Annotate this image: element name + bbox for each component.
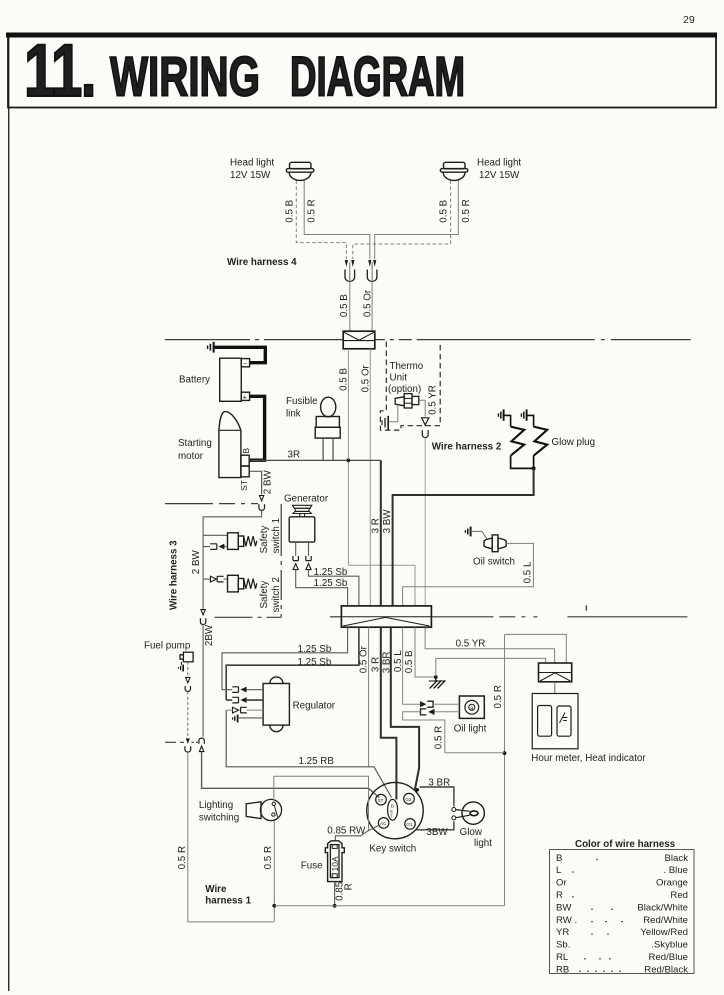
ground node hatch — [429, 677, 446, 688]
connector reg row3 arrow — [233, 707, 239, 713]
color table rows — [556, 853, 688, 976]
svg-text:0.5 B: 0.5 B — [284, 199, 295, 222]
head light left symbol — [286, 162, 314, 180]
fusible link legs — [322, 438, 324, 460]
svg-text:B: B — [391, 804, 394, 809]
svg-text:R: R — [343, 883, 354, 890]
wire 0.5R oil to junction — [445, 752, 505, 754]
boundary line harness3 bottom — [215, 616, 282, 618]
svg-text:0.5 R: 0.5 R — [263, 846, 274, 869]
connector sw1 cup — [210, 544, 217, 550]
svg-text:link: link — [286, 409, 301, 420]
svg-text:ST: ST — [378, 798, 384, 803]
svg-text:Key switch: Key switch — [369, 844, 416, 855]
wire 0.5B jog to connector pin — [348, 565, 415, 606]
wire 3BR to glow light — [420, 787, 454, 807]
key switch terminal ST — [376, 794, 387, 805]
glow plug bottom join — [511, 455, 534, 468]
svg-text:G1: G1 — [406, 822, 413, 827]
svg-text:Starting: Starting — [178, 438, 212, 449]
wire 0.5 Or below C1 — [369, 349, 371, 606]
svg-text:a: a — [470, 706, 474, 712]
wire 1.25RB — [226, 710, 391, 797]
svg-text:BW: BW — [556, 902, 572, 913]
wire glow plug feed to 3BW — [393, 468, 534, 606]
svg-text:Orange: Orange — [656, 878, 688, 889]
wire 0.5B left headlight (dashed) — [296, 181, 346, 260]
hour meter box — [532, 694, 578, 749]
connector thermo cup — [422, 430, 428, 437]
wire 1.25Sb out left 1 — [222, 627, 348, 690]
title text 11. WIRING DIAGRAM — [24, 29, 465, 112]
svg-text:R: R — [556, 890, 563, 901]
boundary dash between fuel connectors — [192, 741, 199, 743]
wire 3BR below block to key switch G2 — [391, 627, 419, 789]
wire oil row1 — [403, 703, 460, 705]
svg-text:Glow: Glow — [460, 827, 483, 838]
svg-text:+: + — [243, 393, 248, 402]
svg-text:B: B — [556, 853, 562, 864]
connector thermo triangle — [422, 418, 429, 425]
boundary line mid right of connector — [431, 616, 706, 618]
wire gen left lead to connector block — [296, 570, 348, 606]
connector fuel lower arrow (filled) — [186, 738, 190, 744]
wire 2BW to safety switches — [203, 511, 262, 536]
svg-text:−: − — [243, 360, 247, 367]
wire vertical sw1 to sw2 — [202, 547, 204, 580]
svg-text:Wire: Wire — [205, 884, 227, 895]
svg-text:Lighting: Lighting — [199, 800, 233, 811]
safety switch 2 body — [228, 575, 257, 592]
wire 0.5L oil switch to connector — [403, 543, 534, 606]
svg-text:0.5 YR: 0.5 YR — [456, 638, 486, 649]
svg-text:0.5 R: 0.5 R — [434, 726, 445, 749]
connector fuel lower cup — [185, 746, 191, 752]
color table dot leaders — [572, 859, 623, 972]
oil switch ground — [465, 527, 470, 537]
wire lighting switch to AC — [274, 776, 369, 830]
wire sw1 arrow to body — [224, 546, 227, 548]
junction dot ground node — [434, 675, 438, 679]
svg-text:switch 2: switch 2 — [271, 577, 282, 612]
wire lighting switch down — [273, 821, 275, 922]
svg-text:RL: RL — [556, 952, 569, 963]
svg-text:Safety: Safety — [259, 526, 270, 554]
connector oil row1 arrow — [420, 701, 426, 707]
wire 0.5R right headlight — [375, 181, 459, 260]
wire fuel pump dashed to connector — [187, 662, 189, 677]
key switch body — [367, 782, 423, 838]
svg-text:Wire harness 4: Wire harness 4 — [227, 257, 297, 268]
svg-text:3 R: 3 R — [371, 518, 382, 533]
connector C2 envelope (hour meter) — [539, 663, 572, 682]
svg-text:Battery: Battery — [179, 375, 210, 386]
svg-text:Black: Black — [665, 853, 689, 864]
svg-text:1.25 Sb: 1.25 Sb — [314, 567, 348, 578]
hour meter window right — [557, 706, 571, 736]
wire 0.5Or below block — [368, 627, 370, 767]
wire oil switch ground lead — [471, 531, 487, 538]
glow plug element left — [511, 427, 525, 456]
svg-text:Fusible: Fusible — [286, 396, 318, 407]
main connector block — [341, 606, 431, 627]
svg-text:motor: motor — [178, 451, 204, 462]
connector reg row1 arrow — [240, 687, 246, 693]
thermo unit dashed box — [380, 342, 440, 431]
svg-text:switch 1: switch 1 — [271, 518, 282, 553]
safety switch 1 body — [228, 533, 257, 550]
wire 2BW down to fuel connector — [202, 625, 204, 737]
svg-text:3 R: 3 R — [370, 657, 381, 672]
svg-text:0.5 Or: 0.5 Or — [360, 364, 371, 392]
junction dot G2 — [415, 788, 419, 792]
wire reg row1 — [222, 689, 263, 691]
svg-text:0.5 B: 0.5 B — [339, 368, 350, 391]
wire 0.5R left headlight — [304, 181, 370, 260]
svg-text:Yellow/Red: Yellow/Red — [640, 927, 688, 938]
wire 0.5B below block to ground node — [415, 627, 436, 677]
svg-text:1.25 RB: 1.25 RB — [299, 756, 335, 767]
svg-text:YR: YR — [556, 927, 569, 938]
svg-text:2BW: 2BW — [204, 624, 215, 646]
svg-text:Oil light: Oil light — [454, 724, 487, 735]
wire 0.5R top link — [505, 634, 567, 663]
svg-text:1.25 Sb: 1.25 Sb — [314, 578, 348, 589]
connector gen right arrow — [306, 564, 311, 570]
battery — [220, 358, 250, 401]
svg-text:Head light: Head light — [477, 158, 521, 169]
svg-text:WIRING: WIRING — [110, 45, 260, 108]
generator leads — [295, 542, 297, 556]
svg-text:B: B — [241, 448, 251, 454]
wire oil row2 — [403, 712, 460, 753]
svg-text:AC: AC — [380, 821, 387, 826]
connector gen right cup — [306, 556, 311, 561]
svg-text:Sb.: Sb. — [556, 940, 570, 951]
svg-text:Color of wire harness: Color of wire harness — [575, 839, 676, 850]
wire bottom bus — [274, 905, 504, 907]
svg-text:Hour meter, Heat indicator: Hour meter, Heat indicator — [531, 753, 646, 764]
svg-text:Oil switch: Oil switch — [473, 557, 515, 568]
wire 0.5R right vertical — [504, 634, 506, 905]
wire ST to 2BW arrow — [249, 471, 261, 494]
svg-text:Regulator: Regulator — [293, 701, 336, 712]
fusible link — [315, 397, 340, 438]
svg-text:switching: switching — [199, 813, 239, 824]
glow plug element right — [534, 427, 548, 456]
fuel pump — [180, 652, 193, 662]
svg-text:Glow plug: Glow plug — [552, 437, 596, 448]
connector sw1 arrow — [218, 544, 224, 550]
color table box — [550, 850, 695, 974]
connector 2BW cup — [259, 504, 265, 510]
svg-text:0.5 B: 0.5 B — [439, 199, 450, 222]
svg-text:0.85 RW: 0.85 RW — [327, 826, 366, 837]
svg-text:1.25 Sb: 1.25 Sb — [298, 657, 332, 668]
wire 0.5YR below block — [425, 627, 554, 663]
boundary line harness3 top — [165, 503, 258, 505]
svg-text:Fuel pump: Fuel pump — [144, 641, 191, 652]
wire envelope2 to hour meter — [554, 682, 556, 694]
svg-text:0.5 B: 0.5 B — [404, 650, 415, 673]
connector 2BW bottom cup — [199, 738, 204, 744]
junction dot fuse bottom — [333, 904, 337, 908]
wire 3R below block to key switch B — [381, 627, 397, 799]
wire vertical to sw1 row — [203, 535, 210, 546]
svg-text:Fuse: Fuse — [301, 861, 323, 872]
svg-text:Red/Blue: Red/Blue — [649, 952, 688, 963]
svg-text:L: L — [556, 865, 562, 876]
wire 0.5B right headlight (dashed) — [353, 181, 451, 260]
connector oil row2 cup — [421, 709, 427, 715]
wire fuel pump dashed mid — [187, 692, 189, 738]
glow light terminals — [452, 808, 456, 812]
wire 3BW G1 to glow light — [416, 821, 454, 830]
key switch terminal G1 — [405, 819, 416, 830]
svg-text:light: light — [474, 838, 492, 849]
connector pins harness4 Or pair (arrows+cup) — [368, 260, 376, 267]
svg-text:0.5 YR: 0.5 YR — [428, 385, 439, 415]
key switch terminal AC — [378, 818, 389, 829]
glow light — [456, 802, 485, 824]
wire 0.5 Or down to connector1 — [371, 282, 373, 332]
wire reg row3 — [226, 709, 263, 711]
connector sw2 cup — [217, 576, 223, 582]
key switch terminal G2 — [404, 793, 415, 804]
fuse body — [325, 841, 344, 882]
connector pins harness4 B pair (arrows+cup) — [345, 260, 355, 267]
wire gen right lead to connector block — [309, 570, 359, 606]
svg-text:DIAGRAM: DIAGRAM — [290, 45, 465, 108]
boundary line top right segment — [375, 339, 700, 341]
svg-text:G2: G2 — [405, 797, 412, 802]
svg-text:3 BR: 3 BR — [428, 777, 450, 788]
hour meter window left — [538, 706, 552, 737]
connector reg row1 cup — [232, 687, 238, 693]
svg-text:Or: Or — [556, 878, 567, 889]
svg-text:Wire harness 2: Wire harness 2 — [432, 441, 502, 452]
junction dot lighting bottom — [272, 904, 276, 908]
svg-text:0.5 Or: 0.5 Or — [362, 289, 373, 317]
boundary line harness3 right vertical — [280, 504, 282, 617]
oil light box — [459, 696, 484, 718]
boundary line top left segment — [165, 339, 343, 341]
wire 0.5R fuel pump down to bottom — [188, 752, 274, 922]
svg-text:Generator: Generator — [284, 494, 329, 505]
connector reg row2 cup — [232, 697, 238, 703]
oil switch body — [484, 535, 506, 552]
svg-text:0.5 Or: 0.5 Or — [359, 645, 370, 673]
thermo ground — [382, 416, 388, 430]
svg-text:0.5 B: 0.5 B — [339, 294, 350, 317]
head light right symbol — [440, 162, 468, 180]
connector gen left cup — [293, 556, 298, 561]
svg-text:T: T — [390, 813, 393, 818]
svg-text:. Blue: . Blue — [663, 865, 688, 876]
connector oil row2 arrow — [428, 709, 434, 715]
svg-text:Red/White: Red/White — [643, 915, 688, 926]
thermo sensor — [395, 394, 419, 408]
title box — [6, 33, 717, 108]
fuel pump ground — [178, 662, 183, 672]
wire 0.5 B below C1 — [347, 349, 349, 566]
key switch center oval B ST — [388, 799, 398, 820]
svg-text:2 BW: 2 BW — [191, 549, 202, 574]
svg-text:Black/White: Black/White — [637, 902, 688, 913]
junction dot glow — [532, 466, 536, 470]
svg-text:0.5 R: 0.5 R — [461, 199, 472, 222]
generator — [289, 505, 315, 542]
wire ground node up and right to envelope2 — [436, 658, 546, 677]
svg-text:Head light: Head light — [230, 158, 274, 169]
left page border — [8, 33, 10, 991]
wire 0.5 B down to connector1 — [349, 282, 351, 332]
wire 0.5YR down to connector — [424, 438, 426, 606]
boundary line mid left of connector — [330, 616, 341, 618]
svg-text:12V 15W: 12V 15W — [230, 170, 271, 181]
svg-text:.Skyblue: .Skyblue — [651, 940, 688, 951]
svg-text:Red/Black: Red/Black — [644, 964, 688, 975]
svg-text:Red: Red — [670, 890, 688, 901]
glow plug ground left — [498, 409, 510, 426]
ground chassis (battery) — [208, 342, 214, 353]
reg ground — [233, 715, 238, 723]
svg-text:11.: 11. — [24, 29, 95, 112]
connector 2BW mid arrow — [201, 610, 205, 615]
thick wire battery plus to starting motor B — [250, 396, 265, 460]
svg-text:RW .: RW . — [556, 915, 577, 926]
svg-text:Unit: Unit — [390, 373, 408, 384]
connector 2BW arrow — [259, 496, 263, 501]
svg-text:29: 29 — [683, 14, 695, 26]
connector reg row2 arrow — [240, 697, 246, 703]
wire to sw2 — [203, 578, 227, 580]
svg-text:Safety: Safety — [259, 581, 270, 609]
junction dot 3R x 0.5B — [347, 459, 351, 463]
boundary line fuel pump — [165, 741, 184, 743]
wire 0.5L below block — [402, 627, 404, 704]
connector C1 envelope (headlight harness) — [343, 331, 375, 349]
connector 2BW mid cup — [200, 618, 205, 624]
connector reg row3 cup — [241, 707, 247, 713]
wire 1.25Sb out left 2 — [226, 627, 359, 700]
small mark above line — [586, 606, 588, 611]
svg-text:0.5 L: 0.5 L — [523, 561, 534, 583]
connector gen left arrow — [293, 564, 298, 570]
connector oil row1 cup — [427, 701, 433, 707]
wire 3R vertical thick — [380, 460, 382, 606]
svg-text:0.5 R: 0.5 R — [307, 199, 318, 222]
svg-text:3 BW: 3 BW — [382, 509, 393, 534]
svg-text:12V 15W: 12V 15W — [479, 170, 520, 181]
regulator box — [263, 677, 289, 732]
connector sw2 arrow — [210, 576, 216, 582]
svg-text:10A: 10A — [330, 856, 340, 871]
svg-text:0.5 R: 0.5 R — [177, 846, 188, 869]
svg-text:RB: RB — [556, 964, 569, 975]
svg-text:Wire harness 3: Wire harness 3 — [169, 540, 180, 610]
wire 2BW to key switch ST — [202, 752, 380, 798]
svg-text:harness 1: harness 1 — [205, 896, 251, 907]
svg-text:Thermo: Thermo — [390, 361, 424, 372]
connector fuel upper cup — [185, 686, 190, 691]
junction dot 0.5R — [503, 751, 507, 755]
wire reg row2 — [226, 699, 263, 701]
wire 2BW down from sw2 — [202, 579, 204, 609]
wire reg ground — [238, 717, 263, 719]
starting motor — [219, 412, 249, 478]
glow plug ground right — [521, 409, 533, 426]
svg-text:3R: 3R — [288, 450, 301, 461]
wire 3R horizontal — [251, 459, 381, 461]
lighting switching symbol — [246, 799, 281, 820]
wire thermo to triangle — [419, 400, 425, 417]
wire AC to fuse node — [335, 826, 378, 841]
wire into safety switch 1 top — [203, 534, 227, 536]
svg-text:ST: ST — [239, 480, 249, 491]
svg-text:2 BW: 2 BW — [263, 469, 274, 494]
connector fuel upper arrow — [186, 677, 190, 682]
svg-text:3 BR: 3 BR — [382, 652, 393, 674]
thick wire ground to battery minus — [215, 347, 266, 362]
svg-text:1.25 Sb: 1.25 Sb — [298, 644, 332, 655]
wire thermo to ground — [389, 406, 398, 422]
wire fuse bottom to bus — [334, 882, 336, 906]
svg-text:0.5 R: 0.5 R — [493, 685, 504, 708]
svg-text:3BW: 3BW — [426, 827, 448, 838]
connector 2BW bottom arrow — [199, 746, 203, 752]
